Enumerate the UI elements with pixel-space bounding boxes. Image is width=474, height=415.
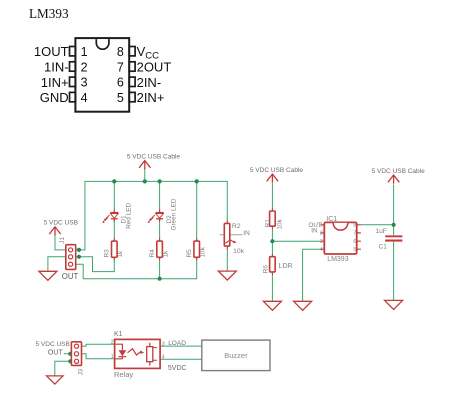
svg-text:10k: 10k: [200, 246, 207, 257]
svg-text:3: 3: [320, 239, 323, 245]
svg-text:2: 2: [81, 60, 88, 74]
svg-text:1IN-: 1IN-: [44, 60, 69, 75]
svg-text:1k: 1k: [117, 250, 124, 258]
svg-text:2: 2: [111, 340, 114, 346]
svg-text:5 VDC USB Cable: 5 VDC USB Cable: [250, 167, 303, 174]
svg-text:1: 1: [111, 354, 114, 360]
svg-text:5VDC: 5VDC: [168, 365, 187, 372]
svg-text:7: 7: [117, 60, 124, 74]
svg-text:2IN-: 2IN-: [137, 75, 162, 90]
svg-text:5 VDC USB: 5 VDC USB: [44, 220, 78, 227]
svg-text:2: 2: [320, 231, 323, 237]
svg-text:OUT: OUT: [48, 350, 64, 357]
svg-text:IN: IN: [311, 228, 317, 235]
svg-text:C1: C1: [379, 243, 388, 250]
svg-text:4: 4: [162, 355, 165, 361]
svg-text:R1: R1: [264, 219, 271, 228]
svg-text:8: 8: [353, 222, 356, 228]
svg-text:6: 6: [353, 239, 356, 245]
svg-text:Relay: Relay: [114, 370, 133, 379]
svg-text:5 VDC USB Cable: 5 VDC USB Cable: [127, 153, 180, 160]
svg-text:5: 5: [353, 247, 356, 253]
svg-text:LOAD: LOAD: [168, 340, 186, 347]
svg-text:IC1: IC1: [326, 216, 337, 223]
svg-text:2OUT: 2OUT: [137, 60, 172, 75]
svg-text:10k: 10k: [276, 218, 283, 229]
svg-text:Red LED: Red LED: [125, 202, 132, 228]
svg-text:1: 1: [320, 222, 323, 228]
svg-text:1k: 1k: [162, 250, 169, 258]
svg-text:5 VDC USB: 5 VDC USB: [36, 341, 70, 348]
svg-text:10k: 10k: [233, 248, 245, 255]
svg-text:1IN+: 1IN+: [41, 75, 69, 90]
svg-text:8: 8: [117, 45, 124, 59]
svg-text:5: 5: [117, 91, 124, 105]
svg-text:K1: K1: [114, 331, 123, 338]
svg-text:3: 3: [81, 76, 88, 90]
svg-text:1: 1: [81, 45, 88, 59]
svg-text:1uF: 1uF: [375, 228, 387, 235]
svg-text:Green LED: Green LED: [171, 198, 178, 230]
svg-text:2IN+: 2IN+: [137, 90, 165, 105]
svg-text:4: 4: [320, 247, 323, 253]
svg-text:OUT: OUT: [62, 272, 79, 281]
svg-text:LDR: LDR: [279, 263, 293, 270]
svg-text:Buzzer: Buzzer: [224, 351, 248, 360]
svg-text:J1: J1: [59, 237, 66, 244]
svg-text:J3: J3: [77, 368, 84, 375]
svg-text:R5: R5: [186, 249, 193, 258]
svg-text:LM393: LM393: [29, 6, 69, 21]
svg-text:7: 7: [353, 231, 356, 237]
svg-text:4: 4: [81, 91, 88, 105]
svg-text:R2: R2: [232, 223, 241, 230]
svg-text:1OUT: 1OUT: [34, 44, 69, 59]
svg-text:R4: R4: [149, 249, 156, 258]
svg-text:R6: R6: [263, 265, 270, 274]
svg-text:GND: GND: [40, 90, 69, 105]
svg-text:5 VDC USB Cable: 5 VDC USB Cable: [372, 168, 425, 175]
svg-text:6: 6: [117, 76, 124, 90]
svg-text:IN: IN: [243, 230, 250, 237]
svg-text:3: 3: [162, 342, 165, 348]
svg-text:LM393: LM393: [327, 256, 349, 263]
svg-text:R3: R3: [104, 249, 111, 258]
